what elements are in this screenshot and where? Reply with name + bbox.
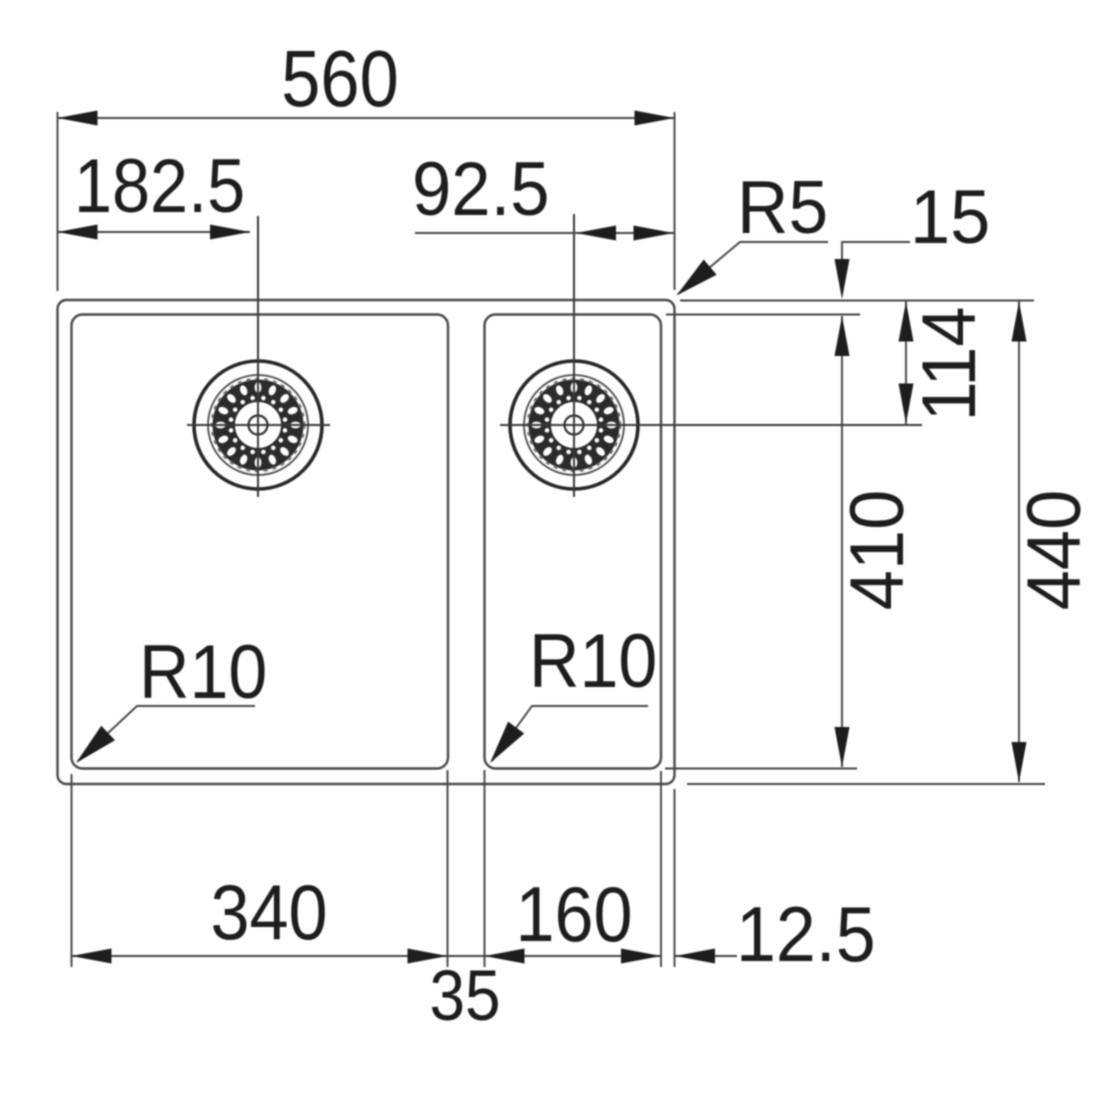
extension line bowl2 right (x=661) [660, 771, 662, 967]
arrow 182.5 left [58, 225, 98, 240]
arrow 440 down [1012, 742, 1027, 782]
drain strainer 2 (right bowl) [510, 361, 638, 489]
extension line right (x=674.5) [674, 112, 676, 290]
arrow 440 up [1012, 302, 1027, 342]
centerline bowl1 horizontal [187, 424, 330, 426]
extension line bowl2 left (x=484.5) [484, 770, 486, 967]
extension line bowl1 left (x=71.5) [71, 774, 73, 967]
arrow 340 left [72, 949, 112, 964]
svg-text:R5: R5 [737, 166, 828, 249]
arrow R5 [677, 260, 717, 296]
dimension tail 12.5 [675, 955, 738, 957]
leader line R5 [678, 242, 828, 294]
dimension line 340/35/160 [72, 955, 662, 957]
arrow 340 right [408, 949, 448, 964]
svg-text:12.5: 12.5 [736, 890, 876, 977]
outer sink rim [58, 300, 675, 784]
svg-text:440: 440 [1011, 490, 1096, 610]
dimension line 560 [58, 117, 675, 119]
leader line R10 right [492, 706, 648, 761]
arrow 160 left [485, 949, 525, 964]
svg-text:R10: R10 [529, 619, 657, 703]
arrow 15 down [835, 259, 850, 299]
bowl 2 (right basin) [485, 315, 662, 769]
arrow 410 down [835, 727, 850, 767]
svg-text:92.5: 92.5 [412, 147, 550, 232]
centerline bowl1 vertical [257, 216, 259, 497]
extension line left (x=57.5) [57, 112, 59, 291]
bowl 1 (left basin) [72, 315, 449, 769]
arrow 114 down [899, 384, 914, 424]
svg-text:35: 35 [429, 957, 500, 1036]
arrow 92.5 right [634, 226, 674, 241]
leader line 15 [842, 242, 910, 268]
svg-text:15: 15 [910, 174, 990, 259]
svg-text:340: 340 [210, 869, 327, 956]
arrow 560 right [635, 111, 675, 126]
dimension line 440 [1018, 301, 1020, 782]
arrow 160 right [621, 949, 661, 964]
extension line bowl1 right (x=447.5) [447, 770, 449, 967]
svg-text:560: 560 [281, 34, 398, 123]
leader line R10 left [78, 706, 255, 761]
arrow R10 right [490, 722, 524, 763]
dimension line 182.5 [58, 231, 251, 233]
dimension line 410 [841, 316, 843, 767]
svg-text:182.5: 182.5 [74, 145, 245, 229]
reference line bowl top right (y=314.5) [666, 314, 860, 316]
arrow 12.5 [675, 949, 715, 964]
reference line outer top right (y=300.5) [680, 300, 1034, 302]
reference line bowl bottom right (y=768.5) [665, 768, 857, 770]
svg-text:R10: R10 [139, 630, 267, 714]
arrow 114 up [899, 302, 914, 342]
dimension line 92.5 [415, 232, 675, 234]
arrow 92.5 left [576, 226, 616, 241]
extension line outer right bottom (x=674.5) [674, 789, 676, 967]
reference line outer bottom right (y=784) [687, 783, 1045, 785]
dimension line 114 [905, 301, 907, 424]
svg-text:410: 410 [834, 490, 919, 610]
arrow R10 left [76, 726, 115, 763]
svg-text:160: 160 [515, 871, 632, 958]
centerline bowl2 horizontal / 114 bottom reference [500, 424, 922, 426]
svg-text:114: 114 [906, 306, 991, 421]
arrow 560 left [58, 111, 98, 126]
drain strainer 1 (left bowl) [194, 361, 322, 489]
arrow 182.5 right [210, 225, 250, 240]
centerline bowl2 vertical [573, 214, 575, 497]
arrow 410 up [835, 316, 850, 356]
